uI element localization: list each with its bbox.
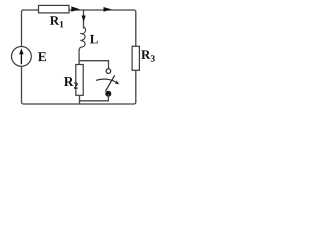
svg-text:L: L (90, 31, 99, 46)
resistor R1 (39, 5, 70, 12)
switch K blade (105, 75, 114, 91)
resistor R3 (132, 46, 139, 70)
wire middle branch upper (83, 10, 85, 29)
current arrow after R1 (71, 6, 80, 11)
wire link switch to R2 stub (80, 94, 109, 101)
wire below L (78, 49, 80, 65)
source E (circle with up arrow) (12, 47, 32, 67)
switch K upper contact (open circle) (106, 69, 111, 74)
wire below R2 (79, 95, 81, 104)
switch K motion arrowhead (115, 81, 119, 85)
wire outer loop (22, 10, 136, 104)
switch K lower contact (junction dot) (106, 91, 111, 96)
current arrow down middle branch (82, 16, 86, 23)
current arrow toward R3 (104, 7, 112, 12)
wire to switch (79, 61, 109, 69)
svg-text:E: E (38, 49, 47, 64)
inductor L (79, 27, 85, 50)
switch K motion arrow arc (96, 79, 116, 82)
resistor R2 (76, 65, 83, 96)
